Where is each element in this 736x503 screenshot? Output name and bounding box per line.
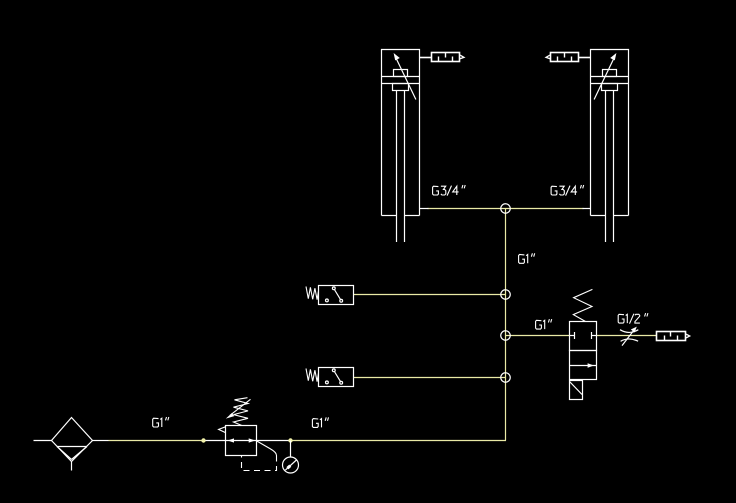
node junction 2 (upper switch): [501, 290, 511, 300]
valve V1 pilot box: [570, 381, 583, 400]
cylinder A2 (right): [591, 50, 629, 243]
valve V1 flow position arrow: [570, 363, 597, 367]
wire: white port stubs of top manifold: [420, 208, 591, 210]
regulator pilot (dashed) line: [242, 441, 277, 470]
valve V1 (2/2 way, spring return): [570, 322, 597, 380]
wire: vertical bus G1: [505, 209, 507, 441]
cylinder A1 (left): [382, 50, 420, 243]
label G1" (filter): [153, 418, 159, 427]
silencer S2 (top right): [546, 53, 591, 62]
label G1" (bus): [519, 255, 525, 264]
valve V1 closed position T ports: [570, 332, 597, 339]
pressure switch PS1 spring: [306, 287, 319, 300]
filter F1 with water trap: [52, 418, 93, 471]
regulator adjustment arrow: [226, 399, 251, 418]
pressure switch PS2 (lower): [319, 368, 354, 387]
silencer S1 (top left): [420, 53, 465, 62]
wire: upper pressure switch line: [354, 294, 506, 296]
valve V1 spring: [573, 289, 592, 321]
label G1" (supply mid): [312, 419, 318, 428]
regulator spring: [234, 398, 249, 426]
pressure regulator R1: [226, 426, 257, 456]
wire: valve feed line: [506, 335, 570, 337]
wire: valve exhaust line to throttle and silencer: [597, 335, 657, 337]
wire: bottom supply line: [34, 440, 507, 442]
label G1" (valve feed): [536, 320, 542, 329]
junction dot on supply line: [201, 438, 205, 442]
pressure switch PS1 (upper): [319, 286, 354, 305]
label G3/4" (right cylinder): [551, 186, 557, 195]
node junction 1 (top manifold): [501, 204, 511, 214]
throttle adjustment arrowhead: [631, 327, 637, 333]
wire: top manifold line between cylinders: [428, 208, 584, 210]
throttle valve (adjustable): [620, 329, 638, 346]
regulator vent triangle: [219, 427, 226, 433]
label G1/2" (throttle): [618, 314, 624, 323]
node junction 4 (lower switch): [501, 373, 511, 383]
cylinder A1 adjustable-cushion arrow: [394, 53, 416, 100]
wire: lower pressure switch line: [354, 377, 506, 379]
pressure switch PS2 spring: [306, 369, 319, 382]
junction dot at gauge tap: [288, 438, 292, 442]
label G3/4" (left cylinder): [433, 186, 439, 195]
pressure gauge G: [283, 441, 299, 474]
regulator flow arrows: [228, 438, 235, 442]
node junction 3 (valve feed): [501, 331, 511, 341]
cylinder A2 adjustable-cushion arrow: [594, 53, 616, 100]
silencer S3 (at throttle): [657, 332, 690, 341]
